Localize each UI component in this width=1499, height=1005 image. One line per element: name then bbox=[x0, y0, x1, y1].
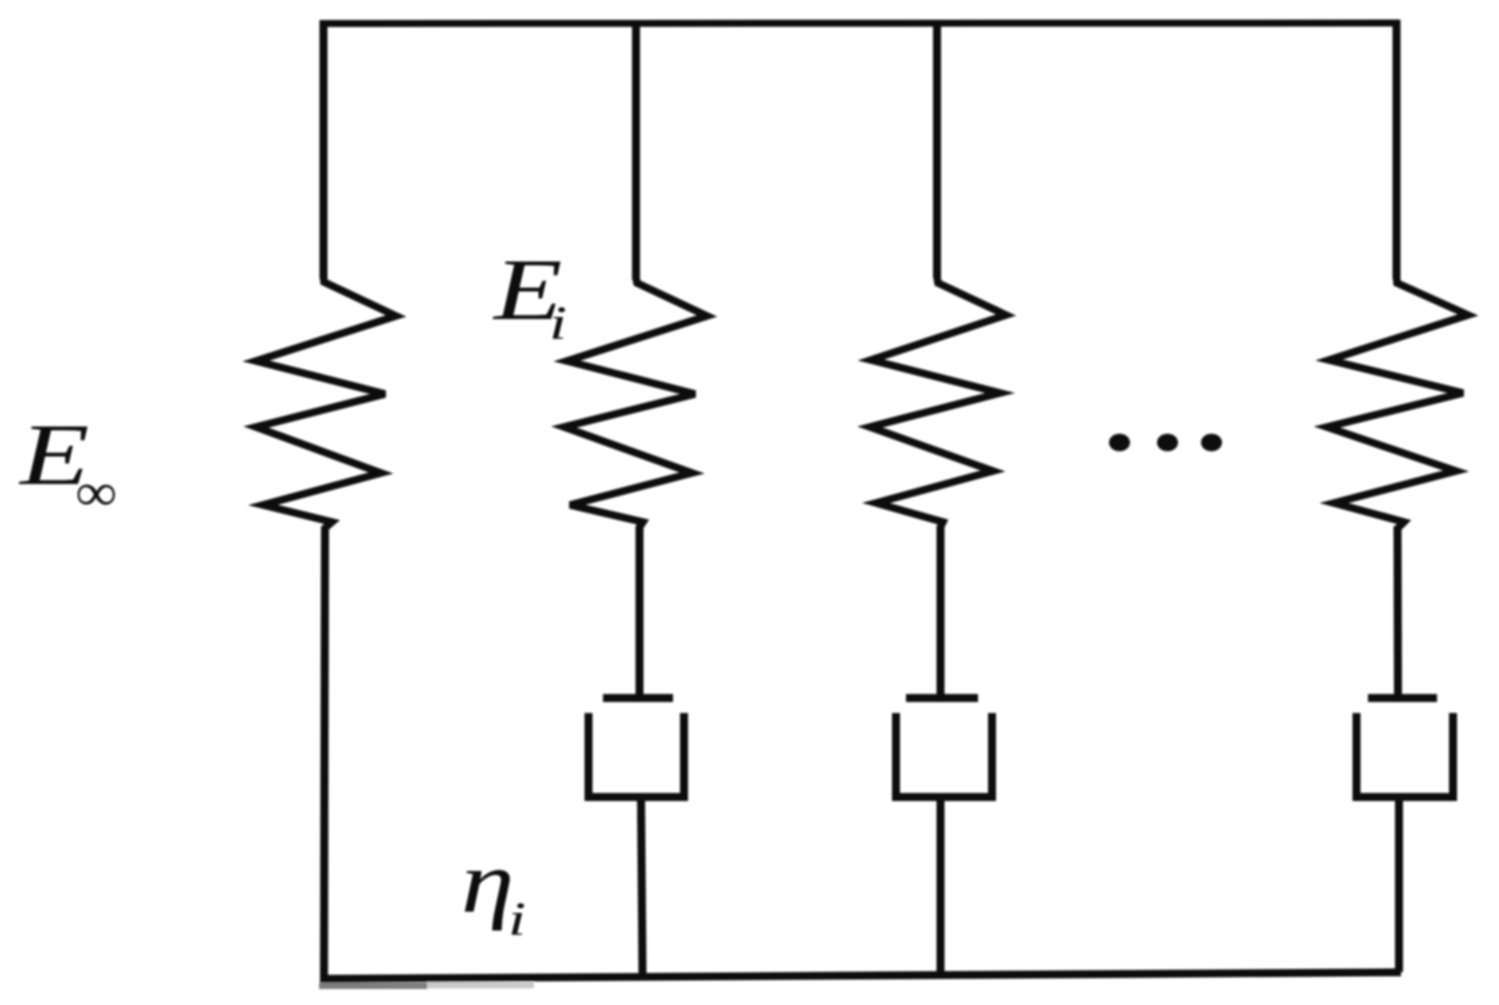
svg-text:η: η bbox=[461, 835, 514, 932]
svg-text:i: i bbox=[508, 893, 526, 946]
svg-text:∞: ∞ bbox=[76, 463, 116, 522]
svg-text:i: i bbox=[549, 297, 567, 350]
